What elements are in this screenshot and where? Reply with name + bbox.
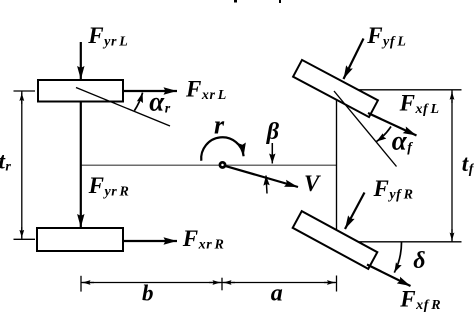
svg-text:FxrL: FxrL [185, 76, 227, 103]
svg-text:δ: δ [413, 248, 425, 274]
svg-text:V: V [304, 171, 321, 196]
svg-text:FyrR: FyrR [88, 173, 130, 200]
svg-text:r: r [214, 111, 225, 140]
svg-text:a: a [271, 280, 283, 306]
svg-text:β: β [266, 119, 280, 145]
svg-text:tf: tf [462, 151, 474, 177]
svg-text:αf: αf [392, 125, 413, 155]
svg-text:FxrR: FxrR [182, 226, 225, 253]
svg-text:b: b [142, 280, 154, 305]
svg-text:FyrL: FyrL [87, 23, 128, 50]
svg-text:FxfR: FxfR [399, 287, 441, 314]
svg-text:FyfR: FyfR [373, 176, 414, 203]
svg-text:FyfL: FyfL [366, 23, 406, 50]
svg-text:FxfL: FxfL [399, 91, 440, 118]
svg-text:tr: tr [0, 148, 11, 174]
